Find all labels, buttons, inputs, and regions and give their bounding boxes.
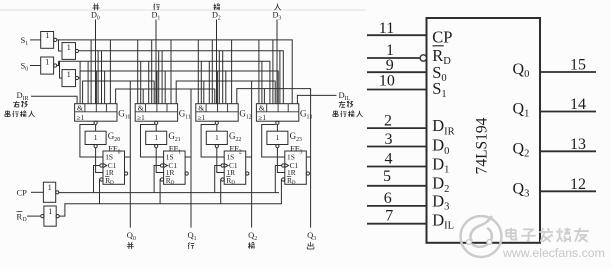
svg-text:G21: G21 <box>168 131 180 143</box>
label Q2 output <box>248 230 257 242</box>
wire net D3 <box>276 20 278 104</box>
and-or gate G10 <box>75 103 117 124</box>
pin 10 label <box>432 79 446 100</box>
label D0 input <box>91 11 100 22</box>
label Q3 output <box>307 230 316 242</box>
label S0 <box>21 61 29 73</box>
pin 4 number <box>385 151 393 168</box>
svg-text:1: 1 <box>276 133 280 142</box>
label G22 <box>229 131 241 143</box>
svg-text:≥1: ≥1 <box>137 114 145 122</box>
pin 3 label <box>432 136 449 157</box>
wire top border hairline <box>0 9 366 11</box>
svg-text:S0: S0 <box>21 61 29 73</box>
svg-text:≥1: ≥1 <box>77 114 85 122</box>
svg-text:&: & <box>198 103 204 112</box>
label FF2 <box>229 144 241 156</box>
svg-text:≥1: ≥1 <box>198 114 206 122</box>
svg-text:74LS194: 74LS194 <box>474 117 491 174</box>
label parallel-output char 1 <box>188 242 194 249</box>
pin 2 wire <box>367 127 427 129</box>
label FF3 <box>290 144 302 156</box>
svg-text:&: & <box>77 103 83 112</box>
wire net CP bus with stubs <box>59 166 282 193</box>
label G21 <box>168 131 180 143</box>
label Q0 output <box>127 230 136 242</box>
pin 1 label <box>432 46 451 67</box>
svg-text:4: 4 <box>385 151 393 168</box>
label G20 <box>108 131 120 143</box>
wire net Q0 feedback <box>83 81 155 228</box>
svg-text:1: 1 <box>215 133 219 142</box>
inverter G1 (S1) <box>41 31 57 48</box>
svg-text:2: 2 <box>384 113 392 130</box>
pin 6 number <box>384 190 392 207</box>
pin 1 bubble <box>420 55 426 61</box>
pin 12 number <box>570 176 586 193</box>
label right-shift (you yi) <box>13 101 27 107</box>
label 74LS194 <box>474 117 491 174</box>
svg-text:D: D <box>110 180 114 186</box>
wire net DIL <box>297 95 336 103</box>
wire net S1-bar rail with drops <box>57 40 292 104</box>
svg-text:CP: CP <box>17 188 28 198</box>
svg-text:D: D <box>171 180 175 186</box>
pin 9 wire <box>367 71 427 73</box>
svg-text:&: & <box>259 103 265 112</box>
wire G4 input jog <box>60 61 63 78</box>
pin 7 wire <box>367 223 427 225</box>
wire net Q3 feedback <box>237 89 311 228</box>
pin 4 label <box>432 155 449 176</box>
svg-text:&: & <box>138 103 144 112</box>
svg-text:DIL: DIL <box>432 210 454 231</box>
svg-text:G23: G23 <box>290 131 302 143</box>
pin 11 number <box>379 20 394 37</box>
pin 4 wire <box>367 166 427 168</box>
pin Q3 label <box>513 180 530 199</box>
svg-text:15: 15 <box>570 57 586 74</box>
svg-text:7: 7 <box>385 208 393 225</box>
watermark logo <box>461 216 502 257</box>
wire 1R feed FF2 <box>217 148 224 173</box>
svg-text:13: 13 <box>570 136 586 153</box>
wire 1R feed FF3 <box>277 148 284 173</box>
and-or gate G13 <box>256 103 298 124</box>
svg-text:1: 1 <box>45 31 49 40</box>
label G11 <box>179 109 191 121</box>
inverter G3 (S0) <box>41 57 57 74</box>
svg-text:Q0: Q0 <box>127 230 136 242</box>
wire G3 output jog <box>57 61 59 65</box>
wire net RD bus with stubs <box>59 180 281 217</box>
wire net DIR <box>31 96 77 104</box>
wire net Q2 feedback <box>176 81 275 228</box>
pin Q2 label <box>513 140 530 159</box>
pin 11 wire <box>367 34 427 36</box>
wire 1S feed FF1 <box>141 125 164 158</box>
label left-shift (zuo yi) <box>339 101 353 107</box>
and-or gate G11 <box>135 103 177 124</box>
wire S0 input <box>30 65 41 67</box>
wire G22 input <box>216 125 218 132</box>
watermark brand text <box>506 228 588 242</box>
label parallel-output char 2 <box>248 242 255 249</box>
wire net Q1 feedback <box>116 89 215 228</box>
pin 7 number <box>385 208 393 225</box>
label parallel-output char 0 <box>127 242 134 249</box>
svg-text:D: D <box>23 217 27 223</box>
svg-text:G22: G22 <box>229 131 241 143</box>
svg-text:≥1: ≥1 <box>258 114 266 122</box>
pin 10 wire <box>367 89 427 91</box>
pin 12 wire <box>540 190 596 192</box>
pin 1 wire <box>367 57 420 59</box>
svg-text:1: 1 <box>67 43 71 52</box>
svg-text:1: 1 <box>67 70 71 79</box>
pin 7 label <box>432 210 454 231</box>
svg-text:G12: G12 <box>239 109 251 121</box>
label G13 <box>300 109 312 121</box>
pin 14 wire <box>540 111 596 113</box>
label parallel-output char 3 <box>307 242 314 249</box>
flip-flop FF1 <box>160 151 188 186</box>
svg-text:12: 12 <box>570 176 586 193</box>
pin 6 wire <box>367 205 427 207</box>
label G10 <box>118 109 130 121</box>
svg-text:Q3: Q3 <box>513 180 530 199</box>
svg-text:D: D <box>292 180 296 186</box>
wire S1 input <box>30 39 41 41</box>
label Q1 output <box>188 230 197 242</box>
pin 2 label <box>432 116 454 137</box>
svg-text:1: 1 <box>94 133 98 142</box>
svg-text:S1: S1 <box>21 35 29 47</box>
svg-text:1: 1 <box>45 57 49 66</box>
svg-text:14: 14 <box>570 96 586 113</box>
pin 10 number <box>379 73 395 90</box>
pin 1 number <box>386 42 394 59</box>
label S1 <box>21 35 29 47</box>
pin 13 wire <box>540 150 596 152</box>
pin 13 number <box>570 136 586 153</box>
svg-text:Q0: Q0 <box>513 61 530 80</box>
svg-text:Q2: Q2 <box>513 140 530 159</box>
svg-text:1: 1 <box>154 133 158 142</box>
label G23 <box>290 131 302 143</box>
label FF1 <box>169 144 181 156</box>
pin 9 number <box>386 57 394 74</box>
svg-text:Q1: Q1 <box>188 230 197 242</box>
pin 3 wire <box>367 146 427 148</box>
svg-text:Q2: Q2 <box>248 230 257 242</box>
pin 11 label <box>432 27 452 46</box>
svg-text:1: 1 <box>48 183 52 192</box>
pin 5 label <box>432 174 449 195</box>
inverter G23 <box>267 131 288 148</box>
watermark url <box>502 246 605 260</box>
pin 15 wire <box>540 71 596 73</box>
IC body 74LS194 <box>427 18 541 243</box>
pin 2 number <box>384 113 392 130</box>
flip-flop FF3 <box>282 151 310 186</box>
flip-flop FF2 <box>221 151 249 186</box>
svg-text:10: 10 <box>379 73 395 90</box>
wire G23 input <box>276 125 278 132</box>
wire 1S feed FF0 <box>80 125 103 158</box>
svg-text:G20: G20 <box>108 131 120 143</box>
wire net D2 <box>216 20 218 104</box>
wire Q1 tap <box>185 156 191 158</box>
label FF0 <box>108 144 120 156</box>
svg-text:6: 6 <box>384 190 392 207</box>
inverter G5 (CP) <box>43 182 59 202</box>
pin 6 label <box>432 192 449 213</box>
wire Q0 tap <box>125 156 131 158</box>
wire Q2 tap <box>246 156 252 158</box>
label parallel-input char 3 <box>275 4 281 11</box>
wire 1R feed FF1 <box>156 148 163 173</box>
pin 5 number <box>383 168 391 185</box>
wire net S1 rail with drops <box>79 51 284 104</box>
svg-text:5: 5 <box>383 168 391 185</box>
inverter G4 (S0 buffered) <box>62 70 79 87</box>
wire G4 output jog <box>79 71 81 78</box>
inverter G22 <box>206 131 227 148</box>
svg-text:D: D <box>231 180 235 186</box>
svg-text:11: 11 <box>379 20 394 37</box>
wire CP input <box>31 191 43 193</box>
wire G21 input <box>155 125 157 132</box>
wire 1S feed FF3 <box>262 125 285 158</box>
wire G2 input jog <box>59 40 63 51</box>
label parallel-input char 0 <box>93 4 100 11</box>
wire net D1 <box>155 20 157 104</box>
wire 1R feed FF0 <box>96 148 103 173</box>
pin 14 number <box>570 96 586 113</box>
pin Q0 label <box>513 61 530 80</box>
label serial-input left (chuan hang shu ru) <box>5 111 35 118</box>
and-or gate G12 <box>196 103 238 124</box>
label D1 input <box>152 11 161 22</box>
wire RD input <box>27 215 41 217</box>
pin 5 wire <box>367 185 427 187</box>
svg-text:www.elecfans.com: www.elecfans.com <box>502 246 605 260</box>
svg-text:Q1: Q1 <box>513 101 530 120</box>
svg-text:3: 3 <box>385 131 393 148</box>
label serial-input right (chuan hang shu ru) <box>333 111 363 118</box>
svg-text:D1: D1 <box>432 155 449 176</box>
inverter G21 <box>146 131 167 148</box>
pin 15 number <box>570 57 586 74</box>
svg-text:CP: CP <box>432 27 452 46</box>
wire 1S feed FF2 <box>201 125 224 158</box>
label CP <box>17 188 28 198</box>
label D2 input <box>212 11 221 22</box>
pin Q1 label <box>513 101 530 120</box>
wire net S0 rail with drops <box>80 71 278 104</box>
wire net S0-bar rail with drops <box>59 61 270 103</box>
label D3 input <box>273 11 282 22</box>
svg-text:G10: G10 <box>118 109 130 121</box>
wire G20 input <box>95 125 97 132</box>
svg-text:DIR: DIR <box>17 90 29 102</box>
pin 3 number <box>385 131 393 148</box>
inverter G20 <box>85 131 106 148</box>
flip-flop FF0 <box>100 151 128 186</box>
wire Q3 tap <box>306 156 310 158</box>
svg-text:Q3: Q3 <box>307 230 316 242</box>
svg-text:DIL: DIL <box>339 90 351 102</box>
svg-text:1: 1 <box>48 207 52 216</box>
label G12 <box>239 109 251 121</box>
inverter G6 (RD) <box>41 206 60 226</box>
wire net D0 <box>95 20 97 104</box>
pin 9 label <box>432 63 446 84</box>
inverter G2 (S1 buffered) <box>62 43 79 60</box>
svg-text:DIR: DIR <box>432 116 454 137</box>
label DIL <box>339 90 351 102</box>
label RD-bar <box>17 211 27 223</box>
svg-text:G11: G11 <box>179 109 191 121</box>
label parallel-input char 1 <box>154 4 160 11</box>
label DIR <box>17 90 29 102</box>
svg-text:9: 9 <box>386 57 394 74</box>
label parallel-input char 2 <box>214 4 221 11</box>
